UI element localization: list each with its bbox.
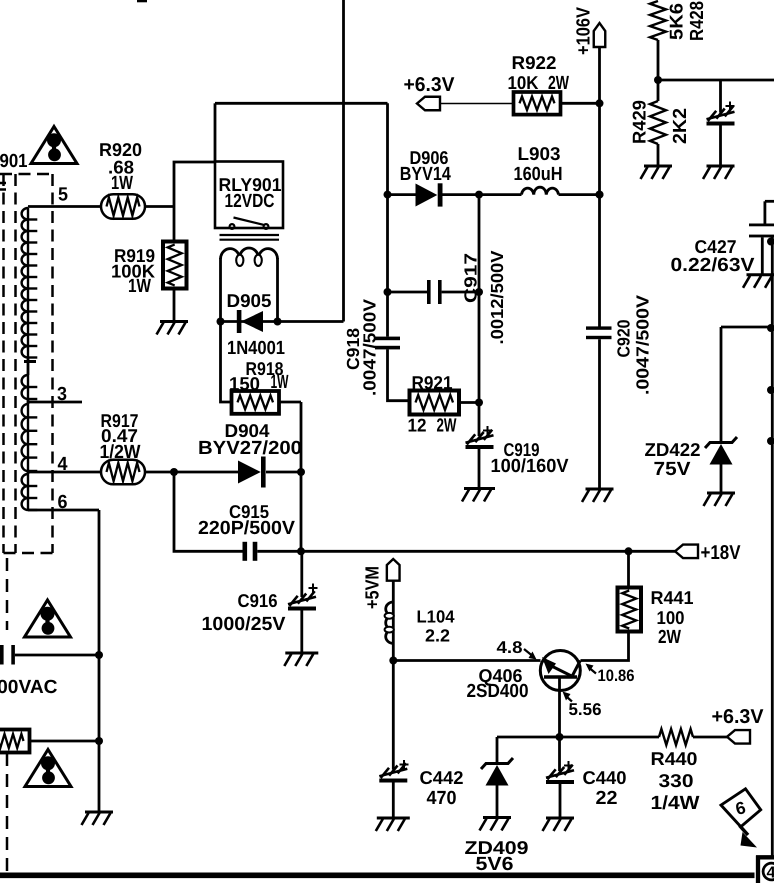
svg-text:10.86: 10.86 xyxy=(598,667,635,685)
svg-text:+18V: +18V xyxy=(701,542,742,564)
svg-text:400VAC: 400VAC xyxy=(0,677,58,698)
svg-text:75V: 75V xyxy=(654,459,691,480)
svg-text:.0012/500V: .0012/500V xyxy=(487,250,507,344)
svg-text:1W: 1W xyxy=(128,276,151,297)
svg-text:R440: R440 xyxy=(651,748,698,769)
svg-text:1000/25V: 1000/25V xyxy=(202,614,286,635)
svg-text:C916: C916 xyxy=(238,590,278,611)
svg-text:100/160V: 100/160V xyxy=(491,456,569,477)
svg-text:4: 4 xyxy=(767,865,774,882)
svg-text:160uH: 160uH xyxy=(514,164,563,185)
svg-text:R922: R922 xyxy=(512,52,557,73)
svg-text:901: 901 xyxy=(0,151,28,172)
svg-text:R429: R429 xyxy=(629,100,650,144)
svg-text:100: 100 xyxy=(657,607,685,628)
svg-text:R921: R921 xyxy=(412,372,453,393)
svg-text:1/2W: 1/2W xyxy=(100,442,141,463)
svg-text:4.8: 4.8 xyxy=(497,638,523,657)
svg-text:C917: C917 xyxy=(460,253,480,303)
svg-text:C442: C442 xyxy=(420,767,464,788)
svg-text:2SD400: 2SD400 xyxy=(467,681,529,702)
svg-text:5V6: 5V6 xyxy=(476,854,514,875)
svg-text:R441: R441 xyxy=(651,587,694,608)
svg-text:1N4001: 1N4001 xyxy=(227,338,285,359)
svg-text:0.22/63V: 0.22/63V xyxy=(671,255,755,276)
svg-text:22: 22 xyxy=(596,788,618,809)
svg-text:+6.3V: +6.3V xyxy=(404,74,456,96)
svg-text:L903: L903 xyxy=(518,143,561,164)
svg-text:BYV27/200: BYV27/200 xyxy=(198,438,302,459)
svg-text:220P/500V: 220P/500V xyxy=(198,518,295,539)
svg-text:2K2: 2K2 xyxy=(670,108,691,144)
svg-text:5K6: 5K6 xyxy=(666,3,687,40)
svg-text:4: 4 xyxy=(58,454,68,475)
svg-text:1W: 1W xyxy=(111,173,133,194)
svg-text:+106V: +106V xyxy=(573,7,594,55)
svg-text:5.56: 5.56 xyxy=(569,700,602,719)
svg-text:+6.3V: +6.3V xyxy=(712,706,765,728)
svg-text:2W: 2W xyxy=(437,416,457,437)
svg-text:C427: C427 xyxy=(695,236,737,257)
svg-text:3: 3 xyxy=(57,384,67,405)
svg-text:330: 330 xyxy=(659,770,694,791)
svg-text:.0047/500V: .0047/500V xyxy=(359,299,379,396)
svg-text:150: 150 xyxy=(229,373,260,394)
svg-text:5: 5 xyxy=(58,185,68,206)
svg-text:C440: C440 xyxy=(583,767,627,788)
svg-text:+5VM: +5VM xyxy=(362,566,383,609)
svg-text:2.2: 2.2 xyxy=(425,626,450,646)
svg-text:D905: D905 xyxy=(227,290,272,311)
svg-text:12: 12 xyxy=(408,415,427,436)
svg-text:ZD422: ZD422 xyxy=(645,439,701,460)
svg-text:6: 6 xyxy=(58,492,68,513)
svg-text:.0047/500V: .0047/500V xyxy=(632,295,652,395)
svg-text:2W: 2W xyxy=(548,73,569,94)
svg-text:1/4W: 1/4W xyxy=(651,793,700,814)
svg-text:BYV14: BYV14 xyxy=(400,164,451,185)
svg-text:1W: 1W xyxy=(271,372,289,393)
svg-text:10K: 10K xyxy=(508,72,540,93)
svg-text:12VDC: 12VDC xyxy=(225,191,275,212)
svg-text:2W: 2W xyxy=(658,627,681,648)
svg-text:L104: L104 xyxy=(417,607,455,627)
svg-text:R428: R428 xyxy=(687,1,708,41)
svg-text:470: 470 xyxy=(427,788,457,809)
svg-text:C920: C920 xyxy=(613,319,633,357)
